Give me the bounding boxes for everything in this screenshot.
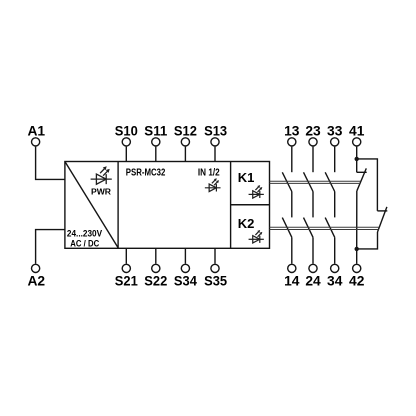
terminal S22 bbox=[152, 264, 160, 272]
terminal S12 bbox=[181, 138, 189, 146]
wire S22 bbox=[155, 248, 157, 263]
NC contact K2 blade bbox=[378, 207, 387, 232]
svg-text:S35: S35 bbox=[204, 274, 227, 289]
K2 mechanical link line upper bbox=[270, 226, 380, 228]
wire S34 bbox=[184, 248, 186, 263]
terminal A1 bbox=[31, 138, 39, 146]
svg-text:23: 23 bbox=[305, 124, 321, 139]
LED IN 1/2 symbol bbox=[205, 178, 221, 191]
wire 13-14 mid bbox=[291, 192, 293, 218]
K1 mechanical link line upper bbox=[270, 180, 361, 182]
svg-text:14: 14 bbox=[284, 274, 300, 289]
terminal S13 bbox=[211, 138, 219, 146]
wire 13 top bbox=[291, 147, 293, 173]
wire 23 top bbox=[312, 147, 314, 173]
terminal 41 bbox=[353, 138, 361, 146]
wire 33 top bbox=[334, 147, 336, 173]
svg-text:S13: S13 bbox=[204, 124, 227, 139]
svg-text:K2: K2 bbox=[238, 216, 255, 231]
NC contact K2 stop bar bbox=[377, 210, 387, 212]
contact K2 blade col 14 bbox=[282, 218, 292, 238]
terminal S35 bbox=[211, 264, 219, 272]
wire 41 right branch bbox=[357, 159, 378, 211]
junction node 42 bbox=[355, 247, 359, 251]
wire A2 bbox=[36, 230, 65, 264]
terminal 33 bbox=[331, 138, 339, 146]
svg-text:41: 41 bbox=[349, 124, 365, 139]
wire S12 bbox=[184, 147, 186, 162]
svg-text:S10: S10 bbox=[115, 124, 138, 139]
svg-text:S22: S22 bbox=[144, 274, 167, 289]
terminal 24 bbox=[309, 264, 317, 272]
wire NC K1 to 42 bbox=[356, 191, 358, 264]
wire 33-34 mid bbox=[334, 192, 336, 218]
LED K1 symbol bbox=[249, 185, 264, 198]
terminal 34 bbox=[331, 264, 339, 272]
terminal S34 bbox=[181, 264, 189, 272]
K2 mechanical link line lower bbox=[270, 229, 379, 231]
contact K2 blade col 24 bbox=[304, 218, 314, 238]
svg-text:A2: A2 bbox=[27, 274, 45, 289]
svg-text:S12: S12 bbox=[174, 124, 197, 139]
svg-text:42: 42 bbox=[349, 274, 365, 289]
svg-text:34: 34 bbox=[327, 274, 343, 289]
svg-text:A1: A1 bbox=[27, 124, 45, 139]
junction node 41 bbox=[355, 157, 359, 161]
terminal S11 bbox=[152, 138, 160, 146]
contact K1 blade col 23 bbox=[304, 172, 314, 191]
K relays divider bbox=[230, 162, 232, 249]
terminal 42 bbox=[353, 264, 361, 272]
svg-text:PWR: PWR bbox=[91, 186, 112, 196]
wire 41 bbox=[356, 147, 358, 159]
svg-text:K1: K1 bbox=[238, 170, 255, 185]
svg-text:PSR-MC32: PSR-MC32 bbox=[126, 168, 166, 179]
terminal 14 bbox=[288, 264, 296, 272]
K1/K2 divider bbox=[231, 204, 270, 206]
svg-text:24: 24 bbox=[305, 274, 321, 289]
wire S21 bbox=[125, 248, 127, 263]
wire NC K2 to 42 bbox=[357, 232, 378, 249]
wire 23-24 mid bbox=[312, 192, 314, 218]
wire S10 bbox=[125, 147, 127, 162]
contact K1 blade col 13 bbox=[282, 172, 292, 191]
LED K2 symbol bbox=[249, 230, 264, 243]
power section diagonal bbox=[65, 162, 118, 248]
svg-text:S34: S34 bbox=[174, 274, 197, 289]
terminal A2 bbox=[31, 264, 39, 272]
svg-text:13: 13 bbox=[284, 124, 300, 139]
terminal S10 bbox=[122, 138, 130, 146]
contact K1 blade col 33 bbox=[325, 172, 335, 191]
wire S13 bbox=[214, 147, 216, 162]
wire 24 bottom bbox=[312, 237, 314, 263]
wire S35 bbox=[214, 248, 216, 263]
K1 mechanical link line lower bbox=[270, 182, 361, 184]
NC contact K1 blade bbox=[357, 168, 366, 190]
wire 14 bottom bbox=[291, 237, 293, 263]
contact K2 blade col 34 bbox=[325, 218, 335, 238]
NC contact K1 stop bar bbox=[357, 171, 367, 173]
terminal 23 bbox=[309, 138, 317, 146]
relay body PSR-MC32 outline bbox=[65, 162, 270, 249]
LED PWR symbol bbox=[91, 166, 112, 184]
terminal S21 bbox=[122, 264, 130, 272]
svg-text:IN 1/2: IN 1/2 bbox=[198, 168, 220, 179]
terminal 13 bbox=[288, 138, 296, 146]
NC contact K1 top wire bbox=[356, 159, 358, 172]
svg-text:AC / DC: AC / DC bbox=[70, 239, 99, 249]
svg-text:24...230V: 24...230V bbox=[67, 228, 102, 238]
wire 34 bottom bbox=[334, 237, 336, 263]
wire A1 bbox=[36, 147, 65, 180]
svg-text:S21: S21 bbox=[115, 274, 138, 289]
wire S11 bbox=[155, 147, 157, 162]
svg-text:S11: S11 bbox=[144, 124, 167, 139]
svg-text:33: 33 bbox=[327, 124, 343, 139]
power section divider bbox=[117, 162, 119, 249]
